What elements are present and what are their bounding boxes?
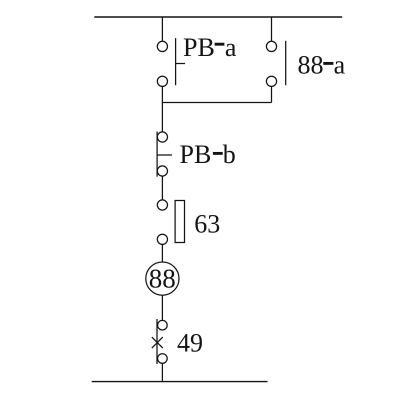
pushbutton PB-b (NC contact, bar tangent to terminals) xyxy=(157,132,172,177)
svg-text:88: 88 xyxy=(149,264,176,294)
junction wire joining the two branches xyxy=(162,102,271,104)
coil 88 (operating coil circle) xyxy=(146,262,179,295)
wire below 88-a down to junction xyxy=(271,86,273,102)
wire below PB-a down through junction to PB-b xyxy=(161,86,163,132)
svg-text:88: 88 xyxy=(298,51,324,80)
relay contact 88-a (NO contact) xyxy=(266,41,285,87)
top power rail xyxy=(94,16,342,18)
thermal relay contact 49 (NC contact with X operator) xyxy=(152,319,167,364)
wire from PB-b down to contact 63 xyxy=(161,176,163,200)
label 88-a xyxy=(298,51,346,80)
wire from 49 down to bottom rail xyxy=(161,363,163,381)
svg-text:PB: PB xyxy=(180,140,212,169)
pressure switch contact 63 (terminals and operating box) xyxy=(157,200,184,245)
label PB-a xyxy=(183,33,237,62)
wire from top rail down to PB-a xyxy=(161,17,163,41)
svg-text:a: a xyxy=(334,51,346,80)
svg-text:49: 49 xyxy=(177,329,203,358)
wire from coil 88 down to contact 49 xyxy=(161,295,163,320)
wire from 63 down to coil 88 xyxy=(161,244,163,262)
svg-text:63: 63 xyxy=(194,209,220,238)
svg-text:PB: PB xyxy=(183,33,215,62)
pushbutton PB-a (NO contact, terminals and actuator) xyxy=(157,38,185,86)
svg-text:b: b xyxy=(223,140,236,169)
svg-text:a: a xyxy=(225,33,237,62)
bottom power rail xyxy=(92,381,268,383)
wire from top rail down to 88-a xyxy=(271,17,273,41)
label PB-b xyxy=(180,140,236,169)
